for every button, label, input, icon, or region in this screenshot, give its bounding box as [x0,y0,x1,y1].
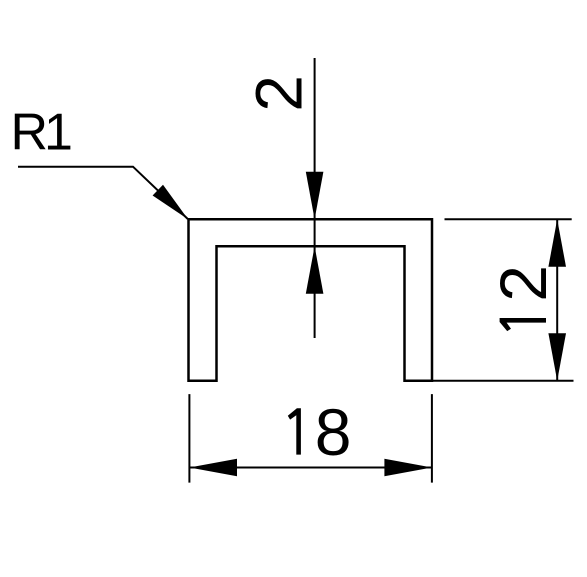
leader line R1 [18,167,188,219]
label 2 [242,75,316,112]
label 12 [486,265,560,331]
dimension 18 line [189,467,432,469]
dimension 2 upper arrowhead [306,172,324,220]
U-channel profile outline [189,219,433,380]
svg-text:2: 2 [486,265,560,302]
dimension 18 left arrowhead [189,459,237,477]
dimension 18 right extension line [431,394,433,483]
svg-text:8: 8 [315,395,352,469]
dimension 12 upper arrowhead [548,219,566,266]
label R1 [11,104,72,162]
dimension 12 bottom extension line [432,380,574,382]
dimension 12 lower arrowhead [548,333,566,381]
svg-text:2: 2 [242,75,316,112]
dimension 18 left extension line [188,394,190,483]
dimension 12 line [556,219,558,380]
label 18 [288,395,352,469]
dimension 2 line [314,58,316,338]
svg-text:R1: R1 [11,104,72,162]
dimension 12 top extension line [445,218,572,220]
leader arrowhead [153,185,188,220]
dimension 18 right arrowhead [384,459,432,477]
dimension 2 lower arrowhead [306,246,324,293]
